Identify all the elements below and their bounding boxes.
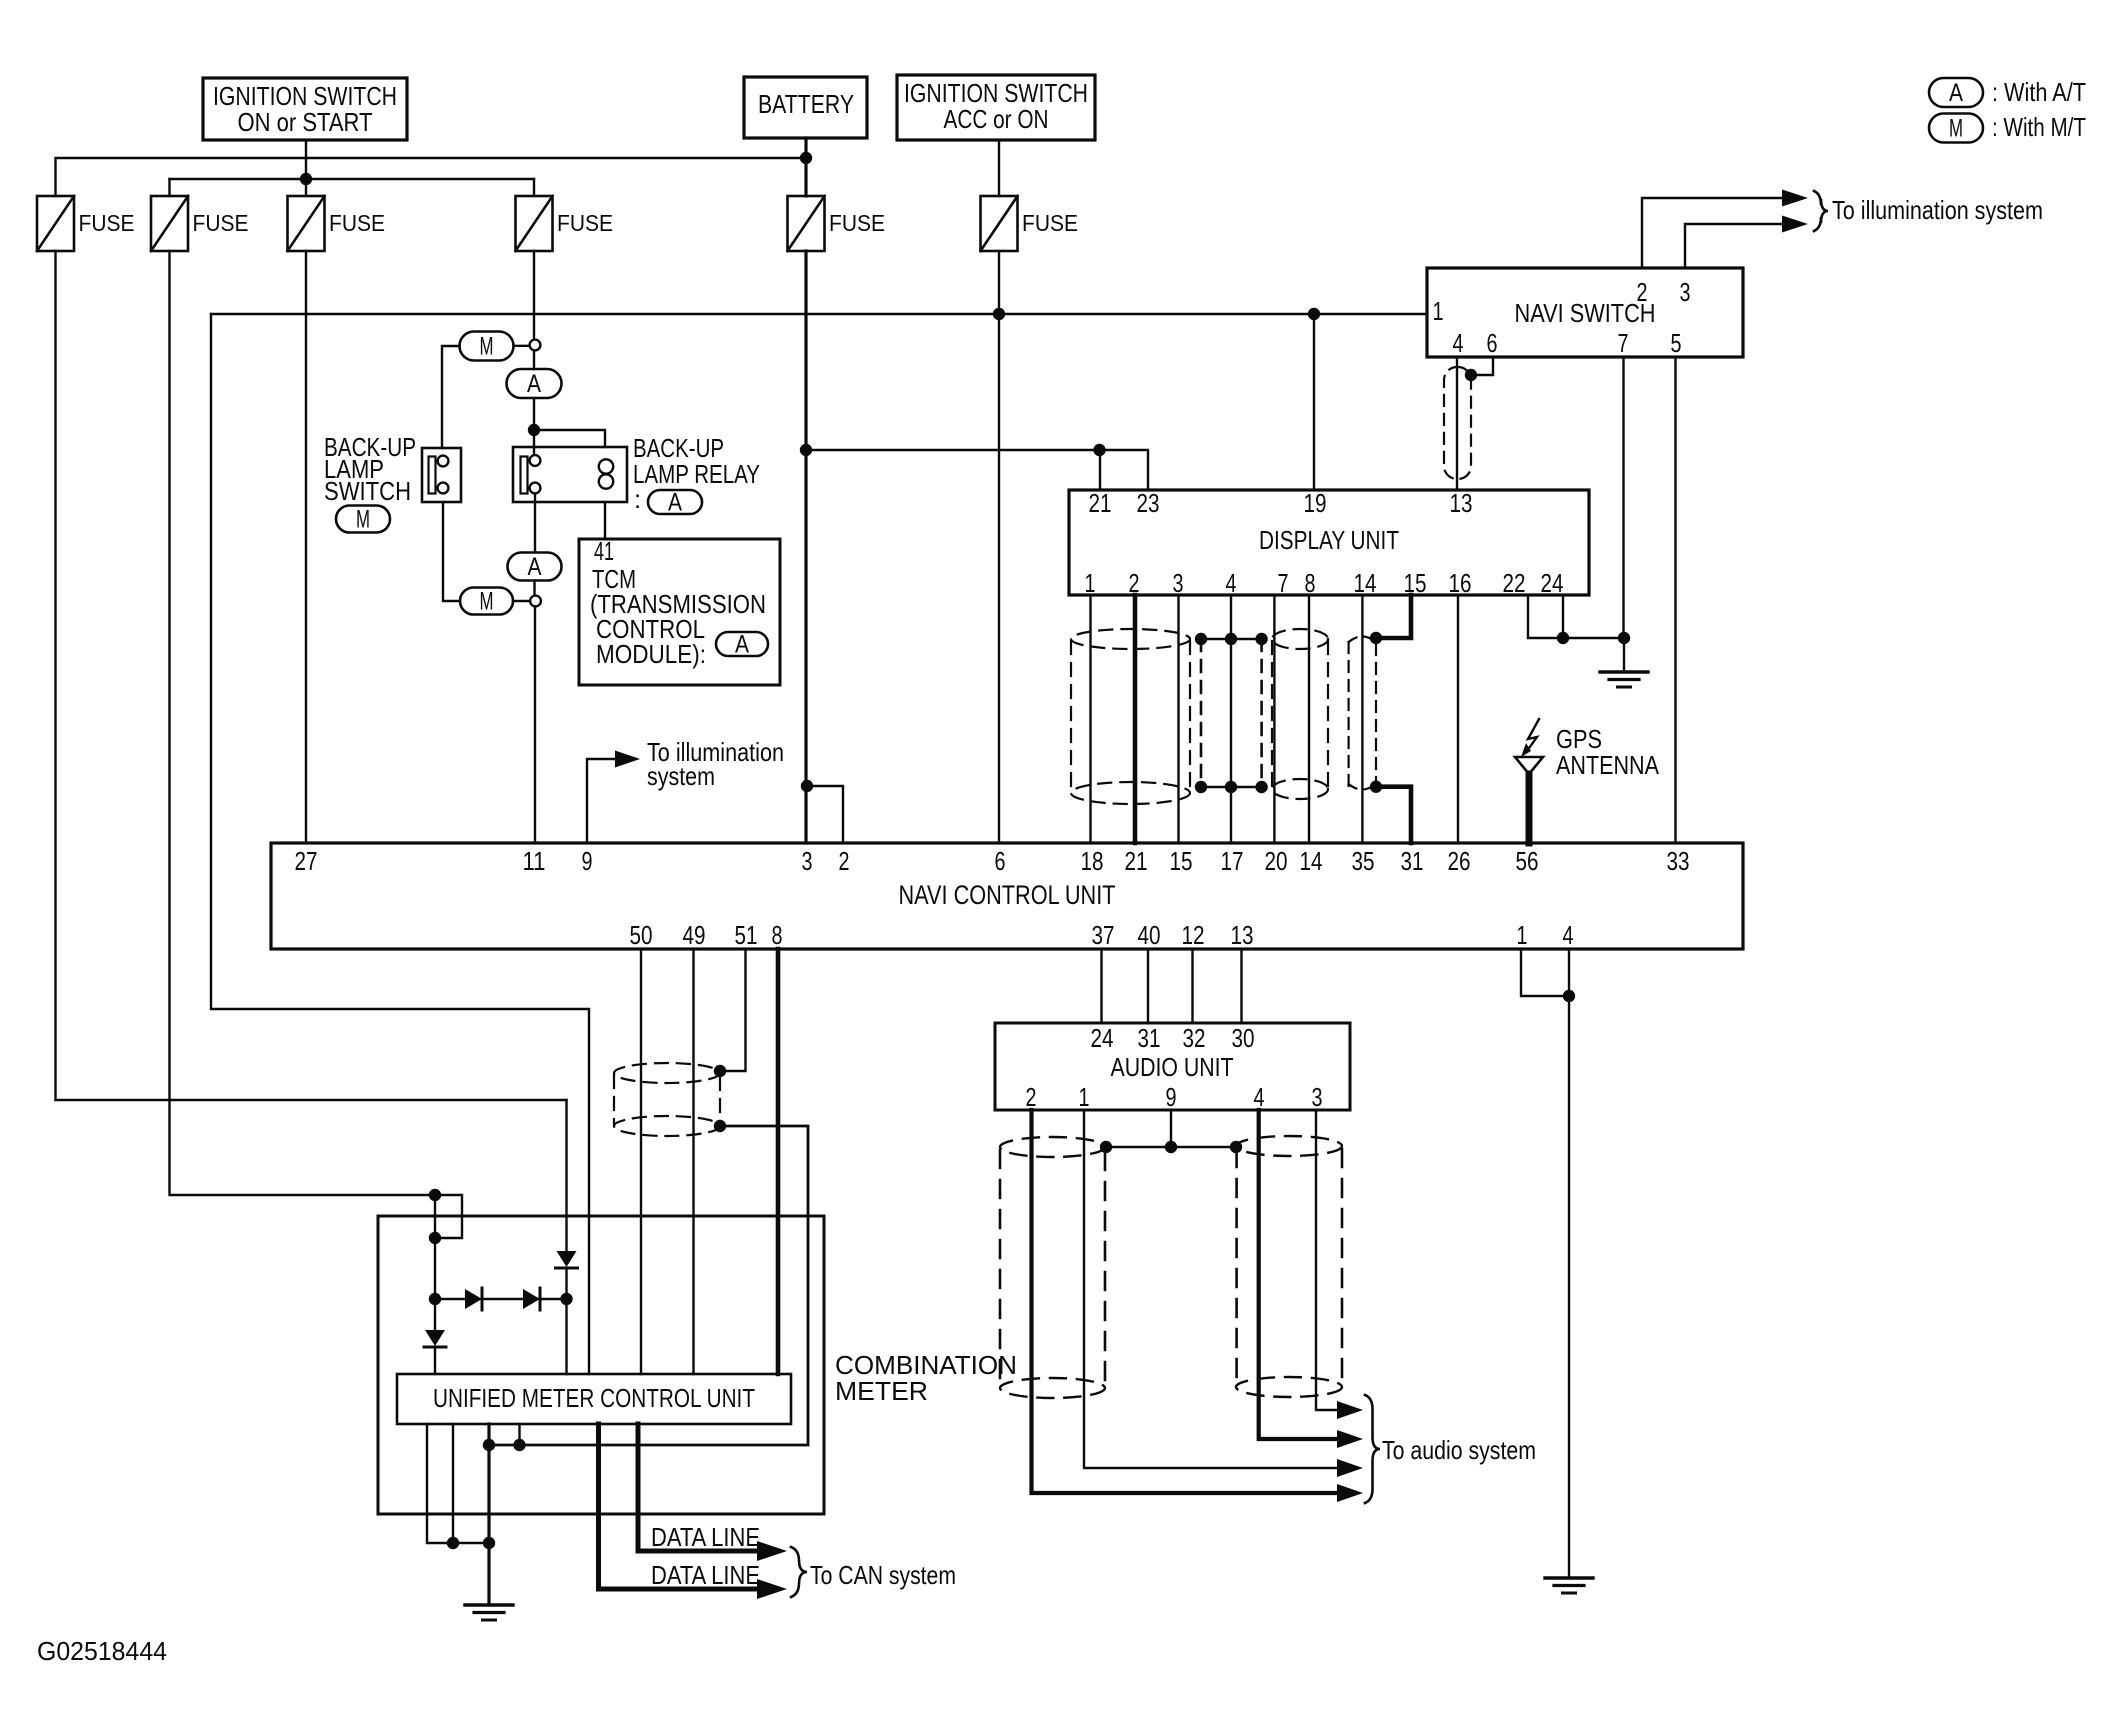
wire battery feed line y158 to fuse F1 — [56, 158, 807, 196]
junction F2 node — [429, 1189, 441, 1201]
meter shield cylinder bottom ellipse — [614, 1116, 720, 1136]
svg-text:20: 20 — [1265, 846, 1288, 876]
svg-text:FUSE: FUSE — [193, 210, 249, 236]
AUDIO UNIT box — [995, 1023, 1350, 1110]
arrow DATA LINE 1 — [757, 1541, 787, 1561]
wire IGN1 fuse bus y179 — [170, 178, 535, 180]
wire battery stem — [804, 138, 807, 196]
ignition switch ON/START box — [203, 78, 407, 140]
shield cylinder C sides — [1271, 641, 1273, 788]
wire node to relay contact — [533, 430, 535, 455]
wire battery feed to display pin 23 — [806, 450, 1148, 490]
svg-text:DATA LINE: DATA LINE — [651, 1560, 760, 1590]
svg-text:MODULE):: MODULE): — [596, 639, 706, 669]
wire navi pin 9 to illumination — [587, 759, 615, 843]
DISPLAY UNIT box — [1069, 490, 1589, 595]
wire navi switch pin 5 to NAVI CONTROL pin 33 — [1674, 357, 1676, 843]
junction shield bus left — [1100, 1141, 1112, 1153]
wire display 2 to navi 21 (thick) — [1133, 595, 1138, 843]
svg-text:M: M — [480, 333, 494, 361]
svg-text:19: 19 — [1304, 488, 1327, 518]
arrow to audio system 3 — [1337, 1459, 1363, 1477]
ground under navi switch pin 7 — [1600, 670, 1648, 673]
svg-text:13: 13 — [1450, 488, 1473, 518]
svg-text:FUSE: FUSE — [1022, 210, 1078, 236]
wire audio 9 to shield bus — [1170, 1110, 1172, 1147]
wire navi 13 to audio 30 — [1240, 949, 1242, 1023]
svg-text:ACC or ON: ACC or ON — [944, 104, 1049, 134]
svg-text:: With A/T: : With A/T — [1992, 77, 2086, 107]
svg-text:3: 3 — [1312, 1082, 1323, 1112]
svg-text:4: 4 — [1563, 920, 1574, 950]
battery box — [744, 77, 867, 138]
svg-text:11: 11 — [523, 846, 546, 876]
svg-text:6: 6 — [995, 846, 1006, 876]
svg-text:17: 17 — [1221, 846, 1244, 876]
brace CAN — [791, 1547, 807, 1597]
contact circle M/T top — [530, 340, 541, 351]
junction battery to display feed — [800, 444, 812, 456]
junction navi 1/4 — [1563, 990, 1575, 1002]
svg-text:24: 24 — [1091, 1023, 1114, 1053]
svg-text:: With M/T: : With M/T — [1992, 112, 2086, 142]
ground bottom right — [1545, 1576, 1593, 1579]
svg-text:49: 49 — [683, 920, 706, 950]
wire navi 49 to unified meter unit — [692, 949, 694, 1374]
junction shield B bottom-right — [1255, 781, 1267, 793]
svg-text:DISPLAY UNIT: DISPLAY UNIT — [1259, 525, 1399, 555]
svg-text:1: 1 — [1517, 920, 1528, 950]
shield D bottom arc — [1349, 784, 1376, 790]
wire A oval to M/T contact lower — [533, 581, 535, 596]
shield cylinder C top ellipse — [1272, 629, 1328, 649]
svg-text:6: 6 — [1487, 328, 1498, 358]
junction 24/ground bus — [1557, 632, 1569, 644]
wire battery to NAVI CONTROL pin 2 — [807, 786, 843, 843]
wire F4 down to M/T contact — [533, 251, 535, 340]
junction shield top (display 15) — [1370, 632, 1382, 644]
svg-text:31: 31 — [1138, 1023, 1161, 1053]
wire unified pin d to shield line — [518, 1424, 520, 1445]
svg-text:M: M — [356, 506, 370, 534]
meter shield cylinder top ellipse — [614, 1063, 720, 1083]
svg-text:ON or START: ON or START — [238, 107, 373, 137]
junction diode branch — [429, 1293, 441, 1305]
svg-text:27: 27 — [295, 846, 318, 876]
junction shield B bottom-left — [1195, 781, 1207, 793]
svg-text:37: 37 — [1092, 920, 1115, 950]
arrow to illumination 1 — [1782, 190, 1808, 207]
svg-text:41: 41 — [594, 536, 614, 566]
wire audio 4 to audio system (thick) — [1259, 1110, 1337, 1439]
svg-text:24: 24 — [1541, 568, 1564, 598]
svg-text:To audio system: To audio system — [1382, 1435, 1536, 1465]
fuse F4 — [516, 196, 553, 251]
UNIFIED METER CONTROL UNIT box — [397, 1374, 791, 1424]
wire shield to navi 31 (thick) — [1376, 787, 1411, 843]
arrow to illumination small — [615, 751, 640, 768]
wire navi switch pin 3 to illumination — [1685, 224, 1783, 268]
fuse F3 — [288, 196, 325, 251]
switch contact bottom — [438, 483, 449, 494]
svg-text:FUSE: FUSE — [829, 210, 885, 236]
wire navi switch pin 4 to display pin 13 — [1456, 357, 1458, 490]
shield cylinder A bottom ellipse — [1071, 782, 1190, 804]
switch contact top — [438, 456, 449, 467]
wire stub to F4 — [533, 179, 535, 196]
wire navi 50 to unified meter unit — [640, 949, 642, 1374]
svg-text:22: 22 — [1503, 568, 1526, 598]
wire to diode D2 — [435, 1298, 465, 1300]
oval M under switch label — [336, 506, 390, 533]
wire audio 3 to audio system — [1316, 1110, 1337, 1410]
svg-text:40: 40 — [1138, 920, 1161, 950]
wire down to NAVI CONTROL pin 11 — [534, 607, 536, 844]
relay coil — [599, 459, 613, 473]
svg-text:FUSE: FUSE — [329, 210, 385, 236]
wire navi 4 to ground — [1568, 949, 1570, 1577]
shield D dashed sides — [1347, 642, 1349, 786]
audio shield cylinder L top ellipse — [1000, 1137, 1105, 1157]
wire ACC bus to NAVI SWITCH pin 1 — [211, 313, 1427, 315]
svg-text:4: 4 — [1254, 1082, 1265, 1112]
wire IGN2 stem to F6 — [998, 140, 1000, 196]
junction shield bus mid (pin 9) — [1165, 1141, 1177, 1153]
ground bottom left — [465, 1603, 513, 1606]
svg-text:3: 3 — [802, 846, 813, 876]
svg-text:7: 7 — [1618, 328, 1629, 358]
wire relay contact down to A oval — [534, 493, 536, 552]
svg-text:A: A — [527, 370, 541, 398]
junction F6/ACC bus — [993, 308, 1005, 320]
wire navi switch pin 6 to shield — [1477, 357, 1493, 375]
svg-text:1: 1 — [1085, 568, 1096, 598]
svg-text:LAMP RELAY: LAMP RELAY — [633, 459, 760, 489]
svg-text:21: 21 — [1089, 488, 1112, 518]
wire display 14 to navi 35 — [1361, 595, 1363, 843]
wire DATA LINE 1 (thick) — [638, 1424, 757, 1551]
wire node to relay coil — [534, 430, 605, 447]
shield cylinder A top ellipse — [1071, 629, 1190, 649]
wire M branch down to back-up lamp switch — [442, 346, 460, 448]
GPS antenna triangle — [1515, 757, 1543, 774]
COMBINATION METER box — [378, 1216, 824, 1514]
junction jog bottom — [429, 1232, 441, 1244]
svg-text:8: 8 — [772, 920, 783, 950]
shield B bottom bar — [1201, 786, 1262, 789]
junction shield bottom (navi 31) — [1370, 781, 1382, 793]
svg-text:M: M — [480, 588, 494, 616]
arrow DATA LINE 2 — [757, 1579, 787, 1599]
wire battery fuse F5 down to NAVI CONTROL pin 3 — [804, 251, 807, 843]
svg-text:DATA LINE: DATA LINE — [651, 1522, 760, 1552]
wire shield to unified meter pins — [489, 1126, 808, 1445]
wire stub to F2 — [168, 179, 170, 196]
back-up lamp switch bar — [429, 457, 436, 494]
wire audio shield bus — [1106, 1146, 1236, 1148]
wire between diodes — [482, 1298, 523, 1300]
wire fuse F6 down to NAVI CONTROL pin 6 — [998, 251, 1000, 843]
back-up lamp switch box — [422, 448, 461, 502]
wire display 24 to ground bus — [1562, 595, 1564, 638]
svg-text:A: A — [1949, 79, 1963, 107]
wire navi 12 to audio 32 — [1191, 949, 1193, 1023]
junction shield B top-mid — [1225, 633, 1237, 645]
svg-text:2: 2 — [1637, 277, 1648, 307]
wire diode to unified meter unit — [434, 1347, 436, 1374]
wire ground bus — [447, 1542, 489, 1544]
wire F1 column into meter — [565, 1100, 567, 1251]
wire unified pin c to ground — [487, 1424, 490, 1604]
arrow to illumination 2 — [1782, 216, 1808, 233]
shield D top arc — [1349, 637, 1376, 643]
svg-text:NAVI CONTROL UNIT: NAVI CONTROL UNIT — [899, 880, 1116, 910]
wire navi 40 to audio 31 — [1147, 949, 1149, 1023]
svg-text:14: 14 — [1354, 568, 1377, 598]
wire navi switch pin 2 to illumination — [1642, 198, 1783, 268]
fuse F6 (ACC) — [981, 196, 1018, 251]
shield B top bar — [1201, 638, 1262, 641]
wire ACC feed from bus down-right into unified meter unit — [211, 314, 589, 1374]
svg-text:AUDIO UNIT: AUDIO UNIT — [1111, 1052, 1234, 1082]
svg-text:NAVI SWITCH: NAVI SWITCH — [1515, 298, 1656, 328]
svg-text:32: 32 — [1183, 1023, 1206, 1053]
junction ground bus 1 — [447, 1537, 459, 1549]
ignition switch ACC/ON box — [897, 75, 1095, 140]
wire display 7 to navi 20 — [1273, 595, 1275, 843]
wire navi 8 to unified meter unit (thick) — [776, 949, 781, 1374]
svg-text:A: A — [528, 553, 542, 581]
wire diode to unified meter unit — [565, 1268, 567, 1374]
wire navi switch pin 7 to ground node — [1622, 357, 1624, 638]
junction shield B top-right — [1255, 633, 1267, 645]
junction shield bottom — [714, 1120, 726, 1132]
oval A in TCM — [716, 632, 768, 656]
wire navi 1 to pin 4 line — [1521, 949, 1563, 996]
junction relay coil branch — [528, 424, 540, 436]
wire ignition1 stem — [305, 140, 307, 179]
audio shield cylinder R top ellipse — [1236, 1136, 1342, 1156]
svg-text:50: 50 — [630, 920, 653, 950]
junction shield B bottom-mid — [1225, 781, 1237, 793]
svg-text:15: 15 — [1170, 846, 1193, 876]
svg-text:system: system — [647, 761, 715, 791]
arrow to audio system 2 — [1337, 1430, 1363, 1448]
wire display 16 to navi 26 — [1457, 595, 1459, 843]
svg-text:SWITCH: SWITCH — [324, 476, 411, 506]
svg-text:BATTERY: BATTERY — [758, 89, 854, 119]
diode D1 (down) on x435 — [425, 1330, 445, 1346]
diode D3 (right) — [523, 1289, 540, 1309]
junction display pin 21 feed — [1093, 444, 1105, 456]
wire unified pin a to ground bus — [427, 1424, 447, 1543]
shield cylinder A sides — [1070, 641, 1072, 792]
oval A (with A/T) top — [507, 369, 562, 398]
svg-text:30: 30 — [1232, 1023, 1255, 1053]
wire jog at meter entry — [435, 1195, 462, 1238]
svg-text:FUSE: FUSE — [557, 210, 613, 236]
junction shield B top-left — [1195, 633, 1207, 645]
svg-text:G02518444: G02518444 — [37, 1636, 167, 1666]
junction diode/x566 column — [560, 1293, 572, 1305]
junction pin6 shield — [1465, 369, 1477, 381]
svg-text:12: 12 — [1182, 920, 1205, 950]
GPS antenna lightning bolt — [1527, 719, 1539, 751]
svg-text:M: M — [1949, 115, 1963, 143]
fuse F2 — [151, 196, 188, 251]
svg-text:To illumination system: To illumination system — [1832, 195, 2043, 225]
audio shield cylinder L sides — [999, 1150, 1002, 1385]
relay bar — [521, 457, 528, 494]
junction ground bus 2 — [483, 1537, 495, 1549]
wire navi 51 to shield — [726, 949, 746, 1071]
junction unified pin/shield line 2 — [513, 1439, 525, 1451]
arrow to audio system 4 — [1337, 1484, 1363, 1502]
brace audio system — [1365, 1395, 1380, 1503]
wire display 4 to navi 17 — [1230, 595, 1232, 843]
oval A beside relay label — [648, 490, 702, 514]
junction ACC bus to display pin 19 — [1308, 308, 1320, 320]
relay contact bottom — [530, 483, 541, 494]
wire display 15 to shield (thick) — [1382, 595, 1411, 638]
junction battery to navi pin 2 — [801, 780, 813, 792]
svg-text:1: 1 — [1079, 1082, 1090, 1112]
diode D4 (down) on x566 — [557, 1251, 577, 1267]
audio shield cylinder R sides — [1235, 1149, 1238, 1384]
svg-text:3: 3 — [1680, 277, 1691, 307]
contact circle M/T lower — [530, 596, 541, 607]
shield B dashed sides — [1200, 639, 1203, 787]
shield cylinder C bottom ellipse — [1272, 779, 1328, 799]
wire fuse F1 down to combination meter — [56, 251, 567, 1100]
fuse F1 — [37, 196, 74, 251]
svg-text:METER: METER — [835, 1376, 928, 1406]
wire display 22 to ground bus — [1528, 595, 1618, 638]
wire fuse F3 to NAVI CONTROL pin 27 — [305, 251, 307, 843]
svg-text:3: 3 — [1173, 568, 1184, 598]
wire display 8 to navi 14 — [1308, 595, 1310, 843]
NAVI SWITCH box — [1427, 268, 1743, 357]
svg-text:51: 51 — [735, 920, 758, 950]
legend M oval (With M/T) — [1929, 114, 1983, 143]
wire ACC bus to display pin 19 — [1313, 314, 1315, 490]
wire navi 37 to audio 24 — [1100, 949, 1102, 1023]
wire switch bottom to M oval — [443, 502, 460, 601]
brace illumination — [1814, 191, 1828, 231]
wire audio 1 to audio system — [1084, 1110, 1337, 1468]
svg-text:FUSE: FUSE — [79, 210, 135, 236]
junction pin7/ground bus — [1618, 632, 1630, 644]
wire display 1 to navi 18 — [1089, 595, 1091, 843]
audio shield cylinder L bottom ellipse — [1000, 1378, 1105, 1398]
oval M (with M/T) top — [460, 332, 514, 361]
svg-text:7: 7 — [1278, 568, 1289, 598]
junction shield bus right — [1230, 1141, 1242, 1153]
wire audio 2 to audio system (thick) — [1032, 1110, 1338, 1493]
fuse F5 (battery) — [788, 196, 825, 251]
svg-text:23: 23 — [1137, 488, 1160, 518]
svg-text:13: 13 — [1231, 920, 1254, 950]
junction IGN1 to fuse bus — [300, 173, 312, 185]
svg-text:To CAN system: To CAN system — [810, 1560, 956, 1590]
wire M oval to contact lower — [513, 600, 530, 602]
oval A lower — [508, 553, 562, 581]
junction unified pin/shield line — [483, 1439, 495, 1451]
svg-text:14: 14 — [1300, 846, 1323, 876]
wire relay coil to TCM pin 41 — [604, 502, 606, 539]
junction shield top (navi 51) — [714, 1065, 726, 1077]
arrow to audio system 1 — [1337, 1401, 1363, 1419]
wire display 3 to navi 15 — [1177, 595, 1179, 843]
svg-text:35: 35 — [1352, 846, 1375, 876]
NAVI CONTROL UNIT box — [271, 843, 1743, 949]
legend A oval (With A/T) — [1929, 78, 1983, 107]
junction battery/F1 line — [800, 152, 812, 164]
wire diode to x566 column — [540, 1298, 567, 1300]
svg-text:A: A — [668, 489, 682, 517]
relay contact top — [530, 455, 541, 466]
TCM box — [579, 539, 780, 685]
svg-text:56: 56 — [1516, 846, 1539, 876]
meter shield cylinder sides — [613, 1075, 615, 1124]
wire unified pin b to ground bus — [452, 1424, 454, 1543]
svg-text:4: 4 — [1453, 328, 1464, 358]
wire diode column x435 — [434, 1195, 436, 1330]
oval M lower — [460, 588, 513, 615]
wire stub to F3 — [305, 179, 307, 196]
shield capsule around pin4 wire — [1444, 367, 1471, 479]
svg-text:2: 2 — [1026, 1082, 1037, 1112]
svg-text:9: 9 — [1166, 1082, 1177, 1112]
svg-text:ANTENNA: ANTENNA — [1556, 750, 1660, 780]
svg-text:15: 15 — [1404, 568, 1427, 598]
svg-text:9: 9 — [582, 846, 593, 876]
wire contact to A oval — [533, 351, 535, 370]
wire A oval to relay node — [533, 398, 535, 430]
svg-text:18: 18 — [1081, 846, 1104, 876]
svg-text:UNIFIED METER CONTROL UNIT: UNIFIED METER CONTROL UNIT — [433, 1383, 755, 1413]
audio shield cylinder R bottom ellipse — [1236, 1377, 1342, 1397]
svg-text:8: 8 — [1305, 568, 1316, 598]
svg-text:31: 31 — [1401, 846, 1424, 876]
diode D2 (right) — [465, 1289, 482, 1309]
wire fuse F2 down to meter diode node — [170, 251, 436, 1195]
svg-text:5: 5 — [1671, 328, 1682, 358]
svg-text:4: 4 — [1226, 568, 1237, 598]
wire to display pin 21 — [1099, 450, 1101, 490]
svg-text:26: 26 — [1448, 846, 1471, 876]
svg-text:16: 16 — [1449, 568, 1472, 598]
svg-text:33: 33 — [1667, 846, 1690, 876]
svg-text:1: 1 — [1433, 296, 1444, 326]
svg-text:A: A — [735, 631, 749, 659]
svg-text:2: 2 — [839, 846, 850, 876]
back-up lamp relay box — [513, 447, 627, 502]
svg-text::: : — [634, 484, 641, 514]
wire ground stem — [1623, 638, 1625, 671]
wire M oval to contact — [514, 345, 530, 347]
svg-text:21: 21 — [1125, 846, 1148, 876]
GPS antenna stem to navi 56 (thick) — [1526, 774, 1533, 843]
wire DATA LINE 2 (thick) — [599, 1424, 758, 1589]
